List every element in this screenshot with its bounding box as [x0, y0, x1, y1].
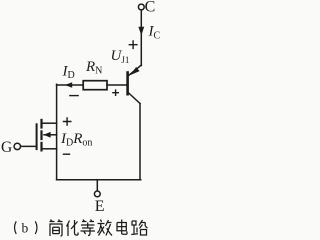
- label + mosfet top: [63, 117, 72, 126]
- wire right rail: [139, 104, 141, 180]
- wire from C down to transistor emitter: [140, 10, 142, 66]
- wire left rail upper (drain): [56, 84, 58, 149]
- label + upper (UJ1): [129, 40, 138, 49]
- mosfet Q2 channel segment bottom: [40, 143, 42, 151]
- terminal C circle: [138, 4, 144, 10]
- mosfet Q2 source stub: [43, 148, 57, 150]
- svg-text:C: C: [145, 0, 156, 15]
- wire emitter diagonal of Q1: [128, 65, 141, 76]
- wire left rail lower (source): [56, 149, 58, 180]
- svg-text:b: b: [22, 221, 29, 236]
- svg-text:E: E: [95, 198, 105, 215]
- mosfet Q2 drain stub: [43, 122, 57, 124]
- caption char jian: [50, 220, 63, 237]
- wire E stub: [96, 180, 98, 191]
- current arrow ID (left): [65, 82, 72, 87]
- mosfet Q2 channel segment middle: [40, 131, 42, 139]
- caption char lu: [131, 220, 147, 235]
- transistor Q1 base bar: [126, 73, 129, 95]
- caption char deng: [81, 220, 96, 236]
- terminal E circle: [94, 191, 100, 197]
- label + at base (right of RN): [112, 89, 119, 96]
- caption char hua: [67, 220, 79, 236]
- caption char dian: [117, 220, 127, 235]
- wire bottom rail: [57, 179, 141, 181]
- label minus mosfet bottom: [63, 153, 70, 155]
- arrow in mosfet Q2 (points left to channel): [44, 132, 51, 138]
- wire base of Q1 from resistor: [107, 84, 127, 86]
- caption char xiao: [98, 220, 113, 236]
- mosfet Q2 channel segment top: [40, 120, 42, 128]
- mosfet Q2 gate bar: [36, 124, 38, 149]
- resistor RN box: [83, 81, 107, 90]
- wire top-left from corner to resistor: [57, 84, 83, 86]
- label minus left of RN: [69, 95, 79, 97]
- wire gate from G terminal: [21, 145, 36, 147]
- terminal G circle: [14, 143, 20, 149]
- arrow on Q1 emitter (points to base): [130, 67, 140, 75]
- wire collector diagonal of Q1: [128, 92, 140, 104]
- svg-text:G: G: [1, 139, 12, 156]
- current arrow IC (down): [138, 27, 144, 36]
- mosfet Q2 body stub: [44, 134, 57, 136]
